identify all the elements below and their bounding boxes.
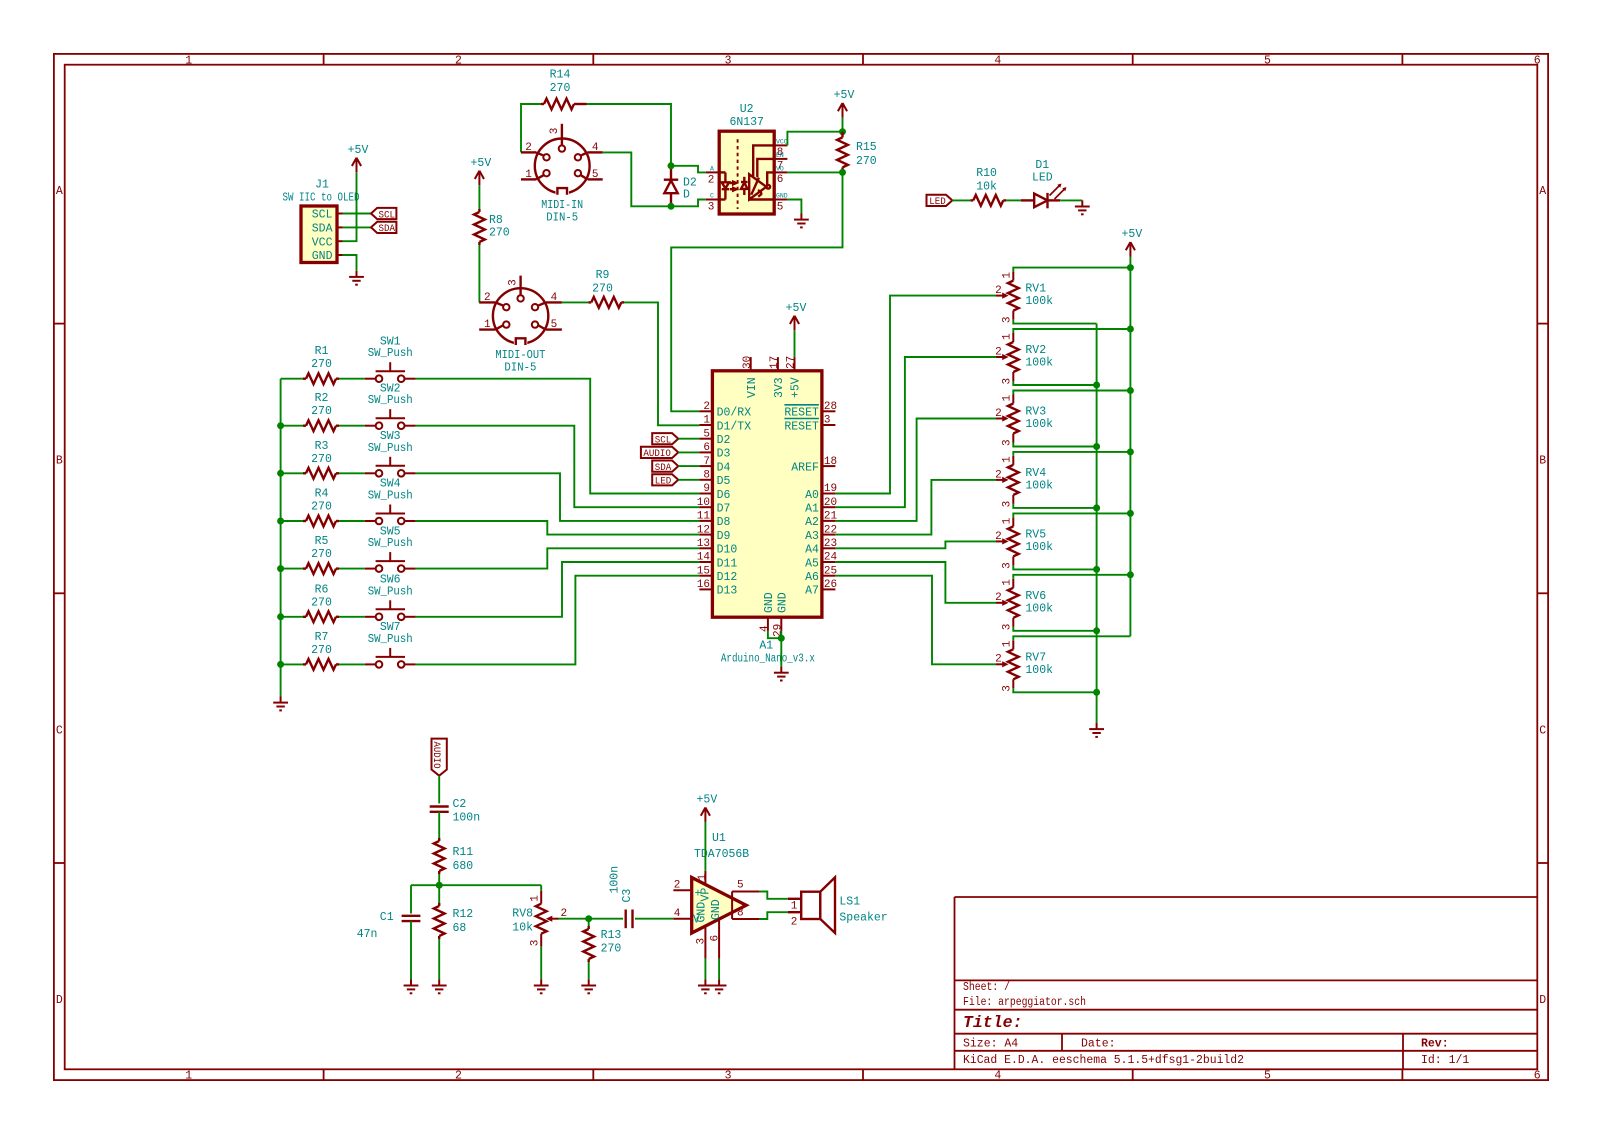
wire J1.SCL to label <box>343 213 372 215</box>
svg-text:4: 4 <box>551 292 558 304</box>
amplifier U1 TDA7056B <box>692 878 747 934</box>
svg-text:19: 19 <box>824 483 837 495</box>
wire SW4 to Arduino <box>416 521 700 535</box>
svg-text:KiCad E.D.A. eeschema 5.1.5+d: KiCad E.D.A. eeschema 5.1.5+dfsg1-2build… <box>963 1054 1244 1067</box>
wire A6 to RV7 wiper <box>835 576 996 665</box>
svg-text:A5: A5 <box>805 557 819 570</box>
svg-text:A1: A1 <box>759 640 773 653</box>
svg-text:2: 2 <box>455 1069 462 1082</box>
wire bus to R7 <box>281 663 303 665</box>
svg-text:1: 1 <box>484 319 491 331</box>
junction D2 cathode / MIDI-IN <box>668 203 675 210</box>
svg-text:GND: GND <box>312 250 333 263</box>
wire C2 to R11 <box>438 812 440 838</box>
svg-text:5: 5 <box>1264 54 1271 67</box>
svg-text:SW_Push: SW_Push <box>368 347 413 360</box>
resistor R8 <box>474 212 485 242</box>
svg-text:RV6: RV6 <box>1025 590 1046 603</box>
svg-text:GND: GND <box>776 592 789 613</box>
wire A3 to RV4 wiper <box>835 480 996 535</box>
svg-text:GND: GND <box>710 899 723 920</box>
junction R15 top <box>839 128 846 135</box>
svg-text:R4: R4 <box>315 488 329 501</box>
title block <box>955 897 1538 1069</box>
global label LED (A1 D5) <box>652 474 678 485</box>
svg-text:D1/TX: D1/TX <box>717 420 752 433</box>
svg-text:5: 5 <box>737 880 744 892</box>
svg-text:SCL: SCL <box>655 435 672 447</box>
potentiometer RV7 100k <box>1008 649 1019 679</box>
svg-text:R9: R9 <box>596 269 610 282</box>
junction A1 GND <box>778 635 785 642</box>
svg-text:16: 16 <box>697 579 710 591</box>
wire bus to R2 <box>281 425 303 427</box>
svg-text:100k: 100k <box>1025 295 1053 308</box>
switch SW3 SW_Push <box>365 457 416 474</box>
svg-text:1: 1 <box>185 1069 192 1082</box>
svg-text:5: 5 <box>777 201 784 213</box>
wire RV1 pin1 to +5V <box>1013 268 1130 272</box>
svg-text:R15: R15 <box>856 141 877 154</box>
U1 pins <box>673 871 759 959</box>
svg-text:6: 6 <box>703 442 710 454</box>
svg-text:3: 3 <box>1002 378 1014 385</box>
wire R1 to SW1 <box>339 378 365 380</box>
svg-text:MIDI-IN: MIDI-IN <box>541 199 583 212</box>
svg-text:270: 270 <box>489 227 510 240</box>
power +5V U1 <box>701 808 710 822</box>
svg-text:A: A <box>56 185 63 198</box>
svg-text:+5V: +5V <box>697 794 718 807</box>
svg-text:R6: R6 <box>315 583 329 596</box>
svg-text:U2: U2 <box>740 103 754 116</box>
svg-text:3V3: 3V3 <box>773 377 786 398</box>
svg-text:3: 3 <box>1002 316 1014 323</box>
resistor R1 <box>306 373 336 384</box>
svg-text:Speaker: Speaker <box>839 912 887 925</box>
wire +5V to R15 <box>842 117 844 131</box>
svg-text:RV8: RV8 <box>512 908 533 921</box>
svg-text:4: 4 <box>674 908 681 920</box>
svg-text:2: 2 <box>995 346 1002 358</box>
svg-text:270: 270 <box>311 405 332 418</box>
svg-text:D: D <box>683 189 690 202</box>
svg-text:3: 3 <box>1002 685 1014 692</box>
svg-text:GND: GND <box>776 193 788 200</box>
junction filter node <box>436 882 443 889</box>
resistor R15 <box>837 137 848 167</box>
svg-text:6: 6 <box>1534 1069 1541 1082</box>
resistor R9 <box>591 297 621 308</box>
power +5V J1 <box>352 158 361 172</box>
junction +5V rail RV5 <box>1127 510 1134 517</box>
svg-text:3: 3 <box>1002 624 1014 631</box>
svg-text:VCC: VCC <box>776 139 788 146</box>
wire SW6 to Arduino <box>416 562 700 617</box>
potentiometer RV3 100k <box>1008 404 1019 434</box>
svg-text:R3: R3 <box>315 440 329 453</box>
J1 pins SCL SDA VCC GND <box>337 214 343 256</box>
svg-text:+5V: +5V <box>786 302 807 315</box>
junction +5V rail RV3 <box>1127 387 1134 394</box>
svg-text:270: 270 <box>856 155 877 168</box>
junction bus R4 <box>277 518 284 525</box>
svg-text:18: 18 <box>824 456 837 468</box>
svg-text:C3: C3 <box>621 889 634 903</box>
wire R5 to SW5 <box>339 568 365 570</box>
svg-text:2: 2 <box>674 880 681 892</box>
wire A4 to RV5 wiper <box>835 541 996 548</box>
wire SW3 to Arduino <box>416 473 700 521</box>
svg-text:R1: R1 <box>315 345 329 358</box>
svg-text:10: 10 <box>697 497 710 509</box>
svg-text:1: 1 <box>1002 395 1014 402</box>
svg-text:LED: LED <box>929 196 946 208</box>
wire U1 pin5 to LS1 pin1 <box>760 892 788 899</box>
ground R13 <box>581 979 596 993</box>
svg-text:Size: A4: Size: A4 <box>963 1038 1018 1051</box>
resistor R6 <box>306 611 336 622</box>
svg-text:3: 3 <box>508 279 520 286</box>
wire MIDI-OUT pin4 to R9 <box>562 301 588 303</box>
svg-text:R13: R13 <box>601 929 622 942</box>
ground RV8 <box>534 979 549 993</box>
svg-text:5: 5 <box>551 319 558 331</box>
svg-text:VCC: VCC <box>312 236 333 249</box>
wire RV6 pin1 to +5V <box>1013 575 1130 579</box>
junction bus R3 <box>277 470 284 477</box>
svg-text:C: C <box>56 724 63 737</box>
svg-text:1: 1 <box>1002 517 1014 524</box>
svg-text:3: 3 <box>725 1069 732 1082</box>
svg-text:SW_Push: SW_Push <box>368 394 413 407</box>
svg-text:1: 1 <box>1002 640 1014 647</box>
junction GND rail RV4 <box>1093 504 1100 511</box>
wire node to R13 <box>588 919 590 926</box>
wire U1 pin3 to ground <box>704 959 706 980</box>
wire SW1 to Arduino <box>416 379 700 494</box>
wire AUDIO label to D3 <box>678 451 699 453</box>
svg-text:2: 2 <box>995 469 1002 481</box>
svg-text:27: 27 <box>786 356 798 369</box>
svg-text:R12: R12 <box>453 908 474 921</box>
svg-text:DIN-5: DIN-5 <box>546 211 578 224</box>
svg-text:23: 23 <box>824 538 837 550</box>
svg-text:B: B <box>1539 455 1546 468</box>
svg-text:RV3: RV3 <box>1025 406 1046 419</box>
svg-text:4: 4 <box>994 1069 1001 1082</box>
resistor R13 <box>583 929 594 959</box>
connector MIDI-IN DIN-5 J? <box>521 124 603 194</box>
svg-text:3: 3 <box>1002 562 1014 569</box>
svg-text:SDA: SDA <box>379 223 396 235</box>
svg-text:270: 270 <box>311 501 332 514</box>
wire A2 to RV3 wiper <box>835 419 996 521</box>
svg-text:R7: R7 <box>315 631 329 644</box>
connector MIDI-OUT DIN-5 <box>479 276 562 344</box>
svg-text:AUDIO: AUDIO <box>430 742 442 769</box>
svg-text:4: 4 <box>592 142 599 154</box>
svg-text:20: 20 <box>824 497 837 509</box>
svg-text:7: 7 <box>703 456 710 468</box>
resistor R11 <box>434 841 445 871</box>
wire R11 to junction <box>438 874 440 885</box>
svg-text:SW IIC to OLED: SW IIC to OLED <box>283 192 360 205</box>
svg-text:15: 15 <box>697 565 710 577</box>
potentiometer RV1 100k <box>1008 281 1019 311</box>
svg-text:1: 1 <box>1002 456 1014 463</box>
svg-text:SCL: SCL <box>379 209 396 221</box>
svg-text:2: 2 <box>995 654 1002 666</box>
svg-text:A3: A3 <box>805 530 819 543</box>
svg-text:12: 12 <box>697 524 710 536</box>
svg-text:30: 30 <box>742 356 754 369</box>
wire LED label to R10 <box>952 199 970 201</box>
wire U1 pin6 to ground <box>718 959 720 980</box>
svg-text:6: 6 <box>777 174 784 186</box>
svg-text:4: 4 <box>994 54 1001 67</box>
svg-text:680: 680 <box>453 860 474 873</box>
wire RV4 pin1 to +5V <box>1013 452 1130 456</box>
svg-text:+5V: +5V <box>1122 228 1143 241</box>
wire node to R12 <box>438 885 440 903</box>
switch SW2 SW_Push <box>365 409 416 426</box>
svg-text:68: 68 <box>453 922 467 935</box>
svg-text:3: 3 <box>549 128 561 135</box>
svg-text:6: 6 <box>1534 54 1541 67</box>
wire R14 left to MIDI-IN pin2 <box>521 104 541 152</box>
wire D2 to U2 pin2 <box>671 166 706 173</box>
svg-text:D2: D2 <box>717 434 731 447</box>
capacitor C2 100n <box>430 807 449 812</box>
svg-text:D12: D12 <box>717 571 738 584</box>
svg-text:100n: 100n <box>453 812 481 825</box>
lead R9 <box>588 301 591 303</box>
svg-text:C2: C2 <box>453 798 467 811</box>
svg-text:270: 270 <box>311 358 332 371</box>
wire R6 to SW6 <box>339 616 365 618</box>
wire J1.GND to ground <box>343 255 357 271</box>
wire A5 to RV6 wiper <box>835 562 996 603</box>
MCU A1 Arduino_Nano_v3.x <box>712 371 822 617</box>
svg-text:2: 2 <box>995 408 1002 420</box>
svg-text:17: 17 <box>769 356 781 369</box>
resistor R10 <box>973 195 1003 206</box>
svg-text:14: 14 <box>697 552 711 564</box>
resistor R12 <box>434 906 445 936</box>
junction GND rail RV6 <box>1093 627 1100 634</box>
svg-text:SDA: SDA <box>655 462 672 474</box>
svg-text:D11: D11 <box>717 557 738 570</box>
svg-text:R10: R10 <box>976 167 997 180</box>
svg-text:25: 25 <box>824 565 837 577</box>
svg-text:Title:: Title: <box>963 1013 1022 1032</box>
wire A1 to RV2 wiper <box>835 357 996 507</box>
wire C3 to U1 pin4 <box>635 918 673 920</box>
svg-text:Id: 1/1: Id: 1/1 <box>1421 1054 1469 1067</box>
svg-text:D10: D10 <box>717 544 738 557</box>
junction bus R7 <box>277 661 284 668</box>
wire RV3 pin3 to GND rail <box>1013 443 1096 447</box>
wire A1 GND pin4 <box>768 631 781 638</box>
A1 top pins VIN 3V3 +5V <box>751 357 795 371</box>
svg-text:Arduino_Nano_v3.x: Arduino_Nano_v3.x <box>721 653 815 666</box>
svg-text:SW_Push: SW_Push <box>368 490 413 503</box>
svg-text:100k: 100k <box>1025 479 1053 492</box>
ground A1 <box>774 667 789 681</box>
wire RV8 wiper out <box>559 918 589 920</box>
svg-text:1: 1 <box>791 901 798 913</box>
wire bus to R1 <box>281 378 303 380</box>
wire R13 to ground <box>588 962 590 979</box>
optocoupler U2 6N137 <box>719 131 774 214</box>
svg-text:100k: 100k <box>1025 357 1053 370</box>
wire RV4 pin3 to GND rail <box>1013 504 1096 508</box>
diode D2 <box>664 166 678 207</box>
wire RV GND rail <box>1096 324 1098 723</box>
ground U1 pin3 <box>698 979 713 993</box>
junction D2 anode / R14 <box>668 162 675 169</box>
wire R14 right to D2 anode <box>587 104 672 166</box>
wire RV5 pin3 to GND rail <box>1013 565 1096 569</box>
ground J1 <box>349 271 364 285</box>
resistor R3 <box>306 468 336 479</box>
svg-text:D4: D4 <box>717 461 731 474</box>
wire U2 pin8 to +5V rail <box>787 132 842 146</box>
wire J1.VCC to +5V <box>343 172 357 241</box>
wire A1 GND pin29 to ground <box>780 631 782 667</box>
svg-text:A: A <box>710 166 714 173</box>
svg-text:R14: R14 <box>550 69 571 82</box>
wire R4 to SW4 <box>339 520 365 522</box>
svg-text:+5V: +5V <box>834 89 855 102</box>
potentiometer RV4 100k <box>1008 465 1019 495</box>
svg-text:270: 270 <box>601 943 622 956</box>
A1 bottom pins GND GND <box>768 617 781 631</box>
switch SW1 SW_Push <box>365 362 416 379</box>
svg-text:2: 2 <box>708 174 715 186</box>
wire SW5 to Arduino <box>416 548 700 568</box>
svg-text:DIN-5: DIN-5 <box>504 361 536 374</box>
wire bus to R6 <box>281 616 303 618</box>
wire bus to R3 <box>281 472 303 474</box>
svg-text:LED: LED <box>655 476 672 488</box>
junction +5V rail RV2 <box>1127 326 1134 333</box>
svg-text:GND: GND <box>763 592 776 613</box>
svg-text:SW_Push: SW_Push <box>368 633 413 646</box>
svg-text:47n: 47n <box>357 928 378 941</box>
wire U2 pin5 to ground <box>787 200 801 214</box>
connector J1 SW IIC to OLED <box>301 206 337 263</box>
svg-text:Rev:: Rev: <box>1421 1038 1449 1051</box>
svg-text:LS1: LS1 <box>839 895 860 908</box>
svg-text:6: 6 <box>709 935 721 942</box>
svg-text:3: 3 <box>696 938 708 945</box>
svg-text:D13: D13 <box>717 585 738 598</box>
svg-text:RESET: RESET <box>784 420 819 433</box>
global label SDA (A1 D4) <box>652 461 678 472</box>
wire left GND bus <box>280 379 282 697</box>
svg-text:RESET: RESET <box>784 407 819 420</box>
svg-text:J1: J1 <box>315 179 329 192</box>
wire RV2 pin3 to GND rail <box>1013 381 1096 385</box>
svg-text:100k: 100k <box>1025 418 1053 431</box>
wire RV3 pin1 to +5V <box>1013 391 1130 395</box>
svg-text:SCL: SCL <box>312 209 333 222</box>
wire SDA label to D4 <box>678 465 699 467</box>
junction +5V rail RV6 <box>1127 571 1134 578</box>
svg-text:GND: GND <box>696 902 709 923</box>
svg-text:A0: A0 <box>805 489 819 502</box>
wire D2 to U2 pin3 <box>671 200 706 207</box>
svg-text:2: 2 <box>455 54 462 67</box>
svg-text:LED: LED <box>1032 172 1053 185</box>
svg-text:D9: D9 <box>717 530 731 543</box>
junction bus R2 <box>277 422 284 429</box>
svg-text:1: 1 <box>703 415 710 427</box>
svg-text:AUDIO: AUDIO <box>643 448 671 460</box>
svg-text:2: 2 <box>995 592 1002 604</box>
svg-text:RV2: RV2 <box>1025 344 1046 357</box>
ground C1 <box>404 979 419 993</box>
svg-text:270: 270 <box>311 453 332 466</box>
junction GND rail RV3 <box>1093 443 1100 450</box>
junction bus R5 <box>277 565 284 572</box>
svg-text:Sheet: /: Sheet: / <box>963 981 1010 994</box>
global label SCL (J1) <box>371 208 396 219</box>
ground U1 pin6 <box>712 979 727 993</box>
svg-text:270: 270 <box>592 282 613 295</box>
svg-text:5: 5 <box>1264 1069 1271 1082</box>
svg-text:C: C <box>1539 724 1546 737</box>
svg-text:+5V: +5V <box>471 157 492 170</box>
svg-text:R2: R2 <box>315 392 329 405</box>
global label SCL (A1 D2) <box>652 433 678 444</box>
svg-text:22: 22 <box>824 524 837 536</box>
wire D1 to ground <box>1060 199 1082 201</box>
svg-text:1: 1 <box>185 54 192 67</box>
junction GND rail RV2 <box>1093 382 1100 389</box>
wire node to RV8 pin1 <box>540 885 542 891</box>
svg-text:11: 11 <box>697 511 711 523</box>
potentiometer RV6 100k <box>1008 588 1019 618</box>
wire SCL label to D2 <box>678 438 699 440</box>
global label AUDIO (filter) <box>432 739 447 776</box>
wire U1 pin8 to LS1 pin2 <box>760 912 788 919</box>
svg-text:3: 3 <box>1002 501 1014 508</box>
wire RV8 to ground <box>540 947 542 980</box>
svg-text:RV1: RV1 <box>1025 283 1046 296</box>
svg-text:1: 1 <box>697 874 709 881</box>
wire R8 to MIDI-OUT pin2 <box>478 245 480 302</box>
wire RV7 pin1 to +5V <box>1013 636 1130 640</box>
wire SW2 to Arduino <box>416 426 700 508</box>
A1 left pins D0-D13 <box>699 411 712 589</box>
svg-text:2: 2 <box>995 531 1002 543</box>
svg-text:100k: 100k <box>1025 664 1053 677</box>
wire A0 to RV1 wiper <box>835 296 996 494</box>
wire R12 to ground <box>438 939 440 979</box>
wire RV6 pin3 to GND rail <box>1013 627 1096 631</box>
wire C1 to ground <box>410 921 412 979</box>
potentiometer RV5 100k <box>1008 526 1019 556</box>
resistor R7 <box>306 659 336 670</box>
svg-text:Date:: Date: <box>1081 1038 1116 1051</box>
svg-text:1: 1 <box>1002 333 1014 340</box>
svg-text:R8: R8 <box>489 214 503 227</box>
resistor R5 <box>306 563 336 574</box>
junction GND rail RV5 <box>1093 566 1100 573</box>
